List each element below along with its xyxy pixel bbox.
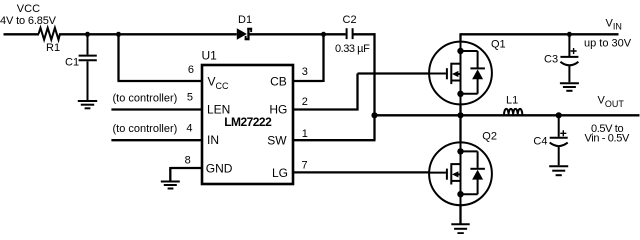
wire VIN rail (461, 33, 619, 35)
wire Q1 drain-source vertical (459, 33, 461, 116)
ground C4 (549, 166, 568, 175)
resistor R1 (39, 28, 60, 40)
svg-text:VOUT: VOUT (598, 95, 625, 109)
svg-text:8: 8 (185, 155, 191, 167)
svg-text:U1: U1 (202, 49, 218, 63)
svg-text:Q2: Q2 (482, 130, 497, 142)
svg-text:VCC: VCC (17, 3, 40, 15)
ground Q2 source (451, 224, 469, 233)
svg-text:C1: C1 (65, 56, 79, 68)
svg-text:0.33 µF: 0.33 µF (335, 43, 370, 55)
IC U1 LM27222 box (202, 65, 293, 184)
svg-text:LM27222: LM27222 (224, 115, 272, 129)
transistor Q1 (N-MOSFET with body diode) (429, 41, 492, 106)
wire D1 cathode to C2 (250, 33, 346, 35)
wire C2 to SW node riser (373, 33, 375, 115)
svg-text:IN: IN (207, 133, 219, 147)
svg-text:(to controller): (to controller) (113, 123, 178, 135)
svg-text:2: 2 (302, 96, 308, 108)
svg-text:L1: L1 (506, 94, 518, 106)
ground C3 (560, 83, 579, 91)
svg-text:1: 1 (302, 128, 308, 140)
svg-text:(to controller): (to controller) (113, 92, 178, 104)
capacitor C3 (polarized) (560, 34, 578, 82)
node SW junction (371, 112, 377, 118)
wire LG pin 7 to Q2 gate (294, 171, 429, 173)
svg-text:5: 5 (187, 91, 193, 103)
svg-text:4V to 6.85V: 4V to 6.85V (0, 15, 57, 27)
svg-text:R1: R1 (46, 42, 60, 54)
wire R1 to D1 (59, 33, 237, 35)
svg-text:LEN: LEN (207, 102, 230, 116)
svg-text:Vin - 0.5V: Vin - 0.5V (585, 133, 630, 145)
node VOUT/C4 junction (556, 112, 562, 118)
svg-text:Q1: Q1 (491, 39, 506, 51)
wire VCC input (4, 33, 40, 35)
capacitor C4 (polarized) (550, 115, 568, 165)
capacitor C2 (347, 28, 353, 39)
wire pin 4 from controller (111, 139, 202, 141)
wire pin 5 from controller (111, 108, 202, 110)
wire Q2 drain vertical (459, 115, 461, 143)
transistor Q2 (N-MOSFET with body diode) (429, 141, 492, 205)
wire HG pin 2 to Q1 gate (294, 74, 429, 111)
wire SW pin 1 riser (294, 115, 376, 140)
svg-text:C4: C4 (533, 136, 547, 148)
svg-text:D1: D1 (238, 14, 252, 26)
svg-text:C3: C3 (544, 54, 558, 66)
ground C1 (78, 101, 97, 108)
inductor L1 (504, 109, 522, 115)
node junction R1/C1 (85, 32, 90, 37)
ground pin 8 (161, 182, 180, 189)
capacitor C1 (79, 34, 97, 100)
wire VOUT rail (375, 114, 640, 116)
capacitor C4 polarity mark (560, 130, 566, 136)
wire C2 right to SW riser (354, 33, 376, 35)
wire Q2 source to ground (459, 205, 461, 224)
svg-text:SW: SW (267, 134, 287, 148)
svg-text:GND: GND (206, 161, 233, 175)
capacitor C3 polarity mark (571, 48, 577, 54)
svg-text:LG: LG (272, 166, 288, 180)
wire pin 8 to ground (170, 167, 202, 181)
wire VCC riser to pin 6 (118, 34, 203, 81)
svg-text:VCC: VCC (208, 75, 230, 91)
svg-text:3: 3 (302, 66, 308, 78)
svg-text:7: 7 (302, 160, 308, 172)
svg-text:VIN: VIN (606, 18, 622, 32)
svg-text:4: 4 (186, 123, 192, 135)
svg-text:HG: HG (269, 102, 287, 116)
svg-text:up to 30V: up to 30V (584, 38, 632, 50)
node VIN/C3 junction (567, 32, 572, 37)
svg-text:CB: CB (270, 74, 287, 88)
node junction D1/C2/CB (321, 32, 326, 37)
node junction VCC riser (116, 32, 121, 37)
diode D1 (Schottky) (237, 28, 252, 40)
svg-text:6: 6 (188, 64, 194, 76)
node Q1/Q2 midpoint junction (457, 112, 463, 118)
wire CB pin 3 riser (294, 34, 324, 82)
svg-text:C2: C2 (343, 14, 357, 26)
